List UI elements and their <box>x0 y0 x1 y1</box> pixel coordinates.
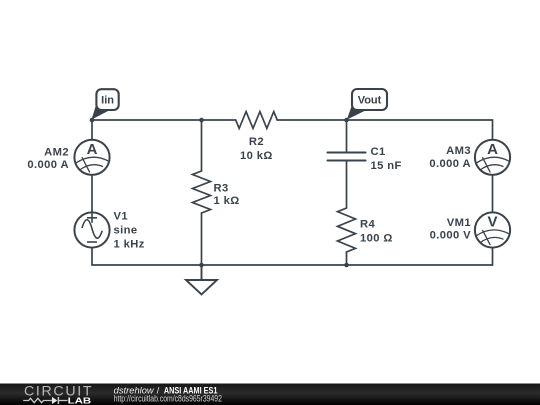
source V1 <box>74 212 109 247</box>
resistor R3 <box>193 171 211 213</box>
wire: V1 bottom to bottom-left corner <box>91 249 93 265</box>
resistor R2 <box>236 112 278 129</box>
svg-text:R3: R3 <box>214 183 229 195</box>
flag Iin <box>92 89 119 119</box>
wire: R3 branch top lead <box>201 120 203 171</box>
capacitor C1 <box>328 153 366 161</box>
ammeter AM3 <box>475 140 510 175</box>
voltmeter VM1 <box>475 212 510 247</box>
wire top rail: node Vout to top-right corner, down to AM3 <box>347 120 493 139</box>
svg-text:VM1: VM1 <box>447 217 471 229</box>
wire top rail: node R3 to R2 left lead <box>202 119 236 121</box>
svg-text:C1: C1 <box>371 146 386 158</box>
svg-text:LAB: LAB <box>68 397 92 405</box>
svg-text:Iin: Iin <box>101 95 114 107</box>
ground <box>186 265 217 295</box>
svg-text:0.000 A: 0.000 A <box>27 159 69 171</box>
svg-text:Vout: Vout <box>358 95 382 107</box>
wire: node Vout down to C1 top plate <box>346 120 348 152</box>
svg-text:A: A <box>87 141 98 158</box>
svg-text:1 kHz: 1 kHz <box>114 239 145 251</box>
flag Vout <box>347 89 387 120</box>
svg-text:15 nF: 15 nF <box>371 160 402 172</box>
wire: R3 bottom lead to ground node <box>201 213 203 265</box>
footer bar <box>0 384 540 405</box>
wire: AM3 bottom to VM1 top <box>492 176 494 212</box>
node ground junction dot <box>199 263 204 268</box>
svg-text:R2: R2 <box>249 136 264 148</box>
svg-text:0.000 V: 0.000 V <box>430 230 472 242</box>
wire bottom rail <box>92 264 493 266</box>
wire: node Iin down to AM2 top <box>91 120 93 139</box>
wire: AM2 bottom to V1 top <box>91 176 93 211</box>
wire top rail: node Iin to node R3 <box>92 119 202 121</box>
node R3-top junction dot <box>199 118 204 123</box>
svg-text:10 kΩ: 10 kΩ <box>240 150 273 162</box>
resistor R4 <box>338 208 356 252</box>
svg-text:V: V <box>487 214 497 231</box>
wire: C1 bottom plate to R4 top <box>346 162 348 209</box>
svg-text:0.000 A: 0.000 A <box>429 158 471 170</box>
CircuitLab logo resistor-diode glyph <box>23 397 67 404</box>
svg-text:AM3: AM3 <box>446 145 471 157</box>
node Vout junction dot <box>344 118 349 123</box>
svg-text:100 Ω: 100 Ω <box>360 233 393 245</box>
wire: R4 bottom lead to bottom rail <box>346 252 348 265</box>
ammeter AM2 <box>74 140 109 175</box>
wire: VM1 bottom to bottom-right corner <box>492 249 494 265</box>
wire top rail: R2 right lead to node Vout <box>277 119 346 121</box>
svg-text:R4: R4 <box>360 219 375 231</box>
svg-text:http://circuitlab.com/c8ds965r: http://circuitlab.com/c8ds965r39492 <box>114 394 222 404</box>
svg-text:V1: V1 <box>114 211 128 223</box>
svg-text:A: A <box>487 141 498 158</box>
svg-text:1 kΩ: 1 kΩ <box>214 195 240 207</box>
node Iin junction dot <box>90 118 95 123</box>
svg-text:sine: sine <box>114 225 138 237</box>
svg-text:AM2: AM2 <box>44 146 69 158</box>
node R4-bottom junction dot <box>344 263 349 268</box>
